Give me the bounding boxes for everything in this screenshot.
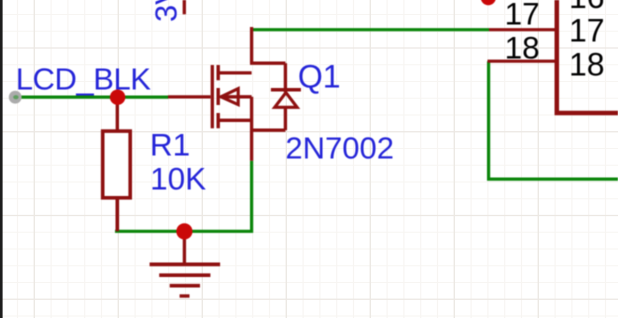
svg-text:R1: R1 [150,127,190,163]
svg-text:3V3: 3V3 [148,0,183,22]
svg-text:2N7002: 2N7002 [285,130,394,165]
svg-text:10K: 10K [150,161,206,197]
svg-text:17: 17 [569,13,605,49]
svg-text:17: 17 [505,0,540,32]
svg-text:Q1: Q1 [298,59,341,95]
svg-text:18: 18 [505,30,540,66]
svg-text:LCD_BLK: LCD_BLK [16,61,152,96]
svg-text:18: 18 [569,47,605,83]
